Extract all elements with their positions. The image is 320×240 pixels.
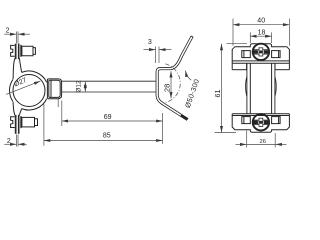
svg-text:85: 85 <box>103 133 111 140</box>
svg-text:26: 26 <box>259 139 265 145</box>
svg-text:2: 2 <box>6 28 10 35</box>
svg-text:61: 61 <box>213 90 222 98</box>
svg-text:3: 3 <box>148 39 152 46</box>
svg-text:2: 2 <box>7 138 11 145</box>
svg-text:40: 40 <box>257 17 265 24</box>
svg-text:Ø12: Ø12 <box>76 80 83 93</box>
svg-text:69: 69 <box>104 114 112 121</box>
svg-text:28: 28 <box>162 84 171 92</box>
svg-text:Ø50-300: Ø50-300 <box>183 78 201 109</box>
svg-text:18: 18 <box>258 29 266 36</box>
